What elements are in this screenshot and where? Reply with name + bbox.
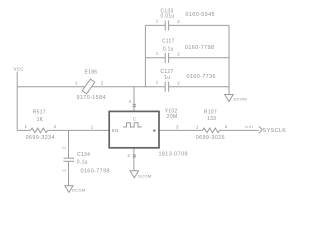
svg-text:0.1u: 0.1u bbox=[77, 160, 88, 166]
svg-text:1: 1 bbox=[196, 125, 199, 130]
svg-text:1813-0709: 1813-0709 bbox=[159, 152, 188, 158]
svg-text:2: 2 bbox=[61, 146, 66, 149]
svg-text:2: 2 bbox=[101, 81, 104, 86]
svg-text:2: 2 bbox=[177, 80, 180, 85]
svg-text:1u: 1u bbox=[164, 75, 170, 81]
svg-text:1: 1 bbox=[156, 80, 159, 85]
svg-text:2: 2 bbox=[177, 19, 180, 24]
svg-text:2: 2 bbox=[54, 124, 57, 129]
svg-text:R107: R107 bbox=[204, 110, 217, 116]
svg-text:1: 1 bbox=[61, 169, 66, 172]
svg-text:1: 1 bbox=[91, 124, 94, 129]
svg-text:2: 2 bbox=[177, 51, 180, 56]
svg-text:DCOM: DCOM bbox=[138, 174, 151, 179]
svg-text:1K: 1K bbox=[37, 117, 44, 123]
svg-text:C: C bbox=[133, 116, 137, 121]
svg-text:xref: xref bbox=[245, 125, 253, 129]
svg-text:0160-5945: 0160-5945 bbox=[186, 12, 215, 18]
svg-text:20M: 20M bbox=[167, 114, 178, 120]
svg-text:E186: E186 bbox=[85, 70, 98, 76]
svg-text:0699-3234: 0699-3234 bbox=[26, 135, 55, 141]
svg-text:1: 1 bbox=[156, 18, 159, 23]
svg-text:0160-7736: 0160-7736 bbox=[187, 74, 216, 80]
svg-text:0699-3026: 0699-3026 bbox=[196, 135, 225, 141]
svg-text:C134: C134 bbox=[77, 152, 90, 158]
svg-text:3: 3 bbox=[176, 125, 179, 130]
svg-text:0160-7798: 0160-7798 bbox=[185, 45, 214, 51]
svg-text:1: 1 bbox=[156, 51, 159, 56]
svg-text:1: 1 bbox=[25, 124, 28, 129]
svg-text:R517: R517 bbox=[33, 110, 46, 116]
svg-text:133: 133 bbox=[207, 116, 216, 122]
svg-text:C117: C117 bbox=[162, 38, 175, 44]
svg-text:SYSCLK: SYSCLK bbox=[263, 128, 287, 134]
svg-text:DCOM: DCOM bbox=[234, 97, 247, 102]
svg-text:C127: C127 bbox=[160, 69, 173, 75]
svg-text:4: 4 bbox=[129, 99, 132, 104]
svg-text:0.1u: 0.1u bbox=[163, 47, 174, 53]
svg-text:9170-1584: 9170-1584 bbox=[77, 95, 106, 101]
svg-text:2: 2 bbox=[127, 153, 130, 158]
svg-text:2: 2 bbox=[225, 124, 228, 129]
svg-text:DCOM: DCOM bbox=[72, 188, 85, 193]
svg-text:0160-7798: 0160-7798 bbox=[81, 168, 110, 174]
svg-text:VCC: VCC bbox=[13, 66, 24, 71]
svg-text:0.01u: 0.01u bbox=[160, 14, 174, 20]
svg-text:1: 1 bbox=[75, 81, 78, 86]
svg-text:EN: EN bbox=[112, 128, 119, 133]
